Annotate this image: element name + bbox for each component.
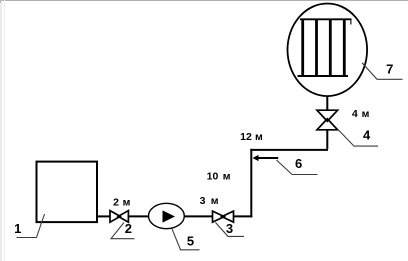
svg-text:м: м — [123, 196, 131, 208]
svg-text:4: 4 — [352, 108, 358, 120]
svg-text:м: м — [255, 131, 263, 143]
svg-text:5: 5 — [187, 233, 194, 248]
label 10 м — [207, 171, 231, 183]
flow arrow 6 — [253, 155, 278, 161]
leader for label 7 — [362, 63, 403, 80]
leader for label 4 — [338, 129, 379, 146]
label 6 — [295, 156, 302, 171]
label 4 м — [352, 108, 370, 120]
svg-text:6: 6 — [295, 156, 302, 171]
wire valve 2 to pump — [128, 215, 148, 217]
svg-text:10: 10 — [207, 171, 219, 183]
label 1 — [14, 221, 21, 236]
svg-text:м: м — [223, 171, 231, 183]
wire valve 4 to radiator — [326, 96, 328, 111]
svg-text:2: 2 — [125, 221, 132, 236]
radiator 7 — [288, 4, 368, 97]
svg-text:3: 3 — [226, 221, 233, 236]
svg-text:7: 7 — [386, 62, 393, 77]
wire radiator drop to valve 4 — [326, 130, 328, 149]
svg-text:м: м — [362, 108, 370, 120]
svg-text:12: 12 — [240, 131, 252, 143]
leader for label 6 — [277, 160, 318, 175]
wire riser vertical — [250, 149, 252, 218]
wire pump to valve 3 — [184, 215, 212, 217]
pump 5 — [149, 203, 185, 228]
leader for label 5 — [172, 229, 200, 250]
label 3 — [226, 221, 233, 236]
leader for label 1 — [17, 214, 45, 238]
leader for label 3 — [216, 223, 245, 237]
svg-text:3: 3 — [200, 195, 206, 207]
wire top horizontal run — [250, 149, 328, 151]
wire tank to valve 2 — [97, 215, 110, 217]
svg-text:м: м — [211, 195, 219, 207]
svg-text:1: 1 — [14, 221, 21, 236]
label 4 — [363, 128, 371, 143]
wire valve 3 to riser corner — [234, 215, 253, 217]
label 5 — [187, 233, 194, 248]
valve 4 — [317, 110, 338, 130]
valve 2 — [110, 211, 128, 223]
leader for label 2 — [111, 223, 135, 239]
label 2 — [125, 221, 132, 236]
svg-text:4: 4 — [363, 128, 371, 143]
label 12 м — [240, 131, 263, 143]
svg-text:2: 2 — [113, 196, 119, 208]
label 7 — [386, 62, 393, 77]
label 3 м — [200, 195, 219, 207]
valve 3 — [213, 211, 234, 222]
tank 1 — [37, 162, 98, 223]
label 2 м — [113, 196, 131, 208]
